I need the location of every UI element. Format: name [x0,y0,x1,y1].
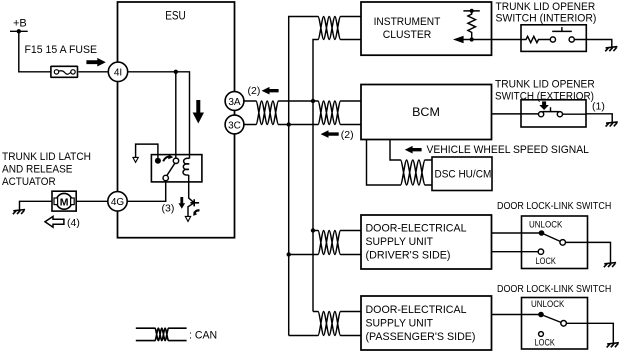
relay blade [167,163,175,175]
interior switch contact 2 [569,37,574,42]
arrow left (2) at 3A [262,87,279,95]
svg-text:TRUNK LID OPENER: TRUNK LID OPENER [496,1,596,13]
arrow left vehicle wheel speed [405,146,422,154]
door-electrical supply unit (driver) box [361,215,492,269]
exterior switch blade [543,107,559,111]
unlock contact (driver) [539,230,545,236]
svg-text:DOOR LOCK-LINK SWITCH: DOOR LOCK-LINK SWITCH [497,283,611,295]
switch blade (passenger) [541,315,561,323]
svg-text:4G: 4G [111,197,125,208]
ground (passenger switch) [607,343,619,348]
door lock-link switch (driver) box [522,216,588,269]
svg-text:AND RELEASE: AND RELEASE [2,164,73,176]
svg-text:3C: 3C [228,120,241,131]
svg-text:VEHICLE WHEEL SPEED SIGNAL: VEHICLE WHEEL SPEED SIGNAL [427,144,589,156]
ground (actuator) [13,210,25,215]
svg-text:SUPPLY UNIT: SUPPLY UNIT [366,236,434,248]
wire coil to driver symbol [188,175,194,217]
door lock-link switch (passenger) box [522,298,588,350]
wire passenger switch to ground [566,323,613,343]
interior switch button bar [552,27,572,31]
relay common contact [163,175,168,180]
wire twist to BCM [341,101,362,125]
svg-text:BCM: BCM [412,107,440,119]
wire interior switch line inside cluster [456,39,492,41]
twisted pair BCM to DSC [401,160,426,185]
CAN bus line L (right) [313,40,318,312]
trunk lid opener switch (interior) box [521,25,586,52]
svg-text:(DRIVER'S SIDE): (DRIVER'S SIDE) [366,250,451,262]
twisted pair to passenger door unit [318,312,341,336]
wire bus to driver door unit [289,231,361,255]
exterior switch contact 1 [539,112,544,117]
svg-text:: CAN: : CAN [189,330,217,342]
svg-text:DOOR LOCK-LINK SWITCH: DOOR LOCK-LINK SWITCH [497,200,611,212]
node 3C [225,115,244,134]
twisted pair to driver door unit [318,231,341,255]
svg-text:(2): (2) [248,85,261,97]
svg-text:(3): (3) [162,203,175,215]
arrow down (coil feed) [193,100,204,124]
wire bus to passenger door unit [289,312,361,336]
ground (interior switch) [605,47,617,52]
junction bus H / 3C wire [287,122,291,126]
unlock contact (passenger) [538,312,544,318]
legend CAN wires [136,328,187,340]
node 3A [225,92,244,111]
wire twist to DSC [425,160,432,185]
legend twisted pair [155,328,169,340]
resistor R (CAN terminator) in cluster [463,11,479,40]
node 4G [108,192,127,211]
svg-text:LOCK: LOCK [535,337,556,348]
svg-text:ESU: ESU [165,11,186,23]
wire motor to ground [20,201,53,210]
svg-text:M: M [60,196,69,208]
DSC HU/CM box [432,157,492,191]
twisted pair bus to BCM [318,101,341,125]
lock contact (passenger) [539,332,544,337]
ground (driver switch) [604,263,616,268]
wire driver unit to unlock contact [492,232,542,234]
wire bus top to instrument cluster [341,17,362,40]
svg-text:SWITCH (EXTERIOR): SWITCH (EXTERIOR) [495,90,594,102]
arrow down small at (3) [179,197,186,209]
CAN bus line H (left) [289,17,318,336]
wire 3A to bus [244,100,318,102]
wire driver unit to lock contact [492,251,539,253]
cross symbol on driver output [190,199,199,206]
trunk lid opener switch (exterior) box [521,100,586,127]
wire +B to fuse [19,31,51,72]
fuse F15 15 A [51,66,78,77]
svg-text:CLUSTER: CLUSTER [383,29,432,41]
door-electrical supply unit (passenger) box [361,296,492,350]
arrow press down (exterior switch) [539,101,549,110]
wire fuse to 4I [79,71,119,73]
blade pivot contact (passenger) [561,321,567,327]
svg-text:TRUNK LID OPENER: TRUNK LID OPENER [495,79,595,91]
wire cluster to interior switch [492,39,522,41]
svg-text:(1): (1) [592,101,605,113]
wire BCM to exterior switch [492,113,539,115]
curved bold arrow at driver [194,210,199,213]
svg-text:(4): (4) [67,217,80,229]
relay K1 box [151,155,202,182]
ESU box U1 [118,2,235,238]
relay actuate curved arrow [163,157,169,162]
motor M1 trunk latch actuator [52,191,76,211]
svg-text:SUPPLY UNIT: SUPPLY UNIT [366,318,434,330]
svg-text:TRUNK LID LATCH: TRUNK LID LATCH [2,151,91,163]
svg-text:F15 15 A FUSE: F15 15 A FUSE [25,44,98,56]
wire interior switch to ground [574,40,612,48]
svg-text:DSC HU/CM: DSC HU/CM [435,169,492,181]
wire exterior switch to ground [563,114,613,123]
hollow arrow left (4) [45,216,64,227]
power +B [10,18,28,34]
wire passenger unit to unlock contact [492,314,542,316]
instrument cluster box [361,2,492,55]
wire BCM to DSC twist [367,140,401,186]
wire motor to 4G [76,200,108,202]
svg-text:INSTRUMENT: INSTRUMENT [374,16,441,28]
wire 4I to relay branches [128,72,190,159]
wire driver switch to ground [566,242,611,263]
BCM box [361,85,492,140]
svg-text:UNLOCK: UNLOCK [531,299,565,310]
wire relay dot to hollow arrow [136,144,158,158]
junction bus H / driver wire [287,252,291,256]
svg-text:SWITCH (INTERIOR): SWITCH (INTERIOR) [496,13,597,25]
relay NO contact [173,158,178,163]
svg-text:DOOR-ELECTRICAL: DOOR-ELECTRICAL [366,222,467,234]
relay contact common dot [155,158,161,164]
twisted pair to instrument cluster [318,17,341,40]
svg-text:4I: 4I [114,68,122,79]
resistor in interior switch [521,36,550,42]
switch blade (driver) [542,233,561,241]
svg-text:+B: +B [13,18,27,30]
svg-text:(PASSENGER'S SIDE): (PASSENGER'S SIDE) [366,331,476,343]
wire common to 4G [127,181,166,202]
svg-text:3A: 3A [228,97,241,108]
svg-text:ACTUATOR: ACTUATOR [2,176,56,188]
junction bus L / 3A wire [311,99,315,103]
exterior switch contact 2 [557,112,562,117]
interior switch contact 1 [550,37,555,42]
ground (exterior switch) [606,122,618,127]
relay coil [183,158,189,175]
arrow left into cluster [453,36,464,43]
svg-text:(2): (2) [341,129,354,141]
svg-text:LOCK: LOCK [536,256,557,267]
arrow left (2) at BCM [321,130,339,138]
hollow arrow down (driver output) [185,216,190,221]
twisted pair at 3A/3C [256,101,279,125]
blade pivot contact (driver) [560,240,566,246]
junction bus L / driver wire [311,228,315,232]
junction dot [174,70,178,74]
wire 3C to bus [244,124,318,126]
lock contact (driver) [538,249,543,254]
arrow right into 4I [86,58,105,67]
node 4I [108,62,127,81]
svg-text:DOOR-ELECTRICAL: DOOR-ELECTRICAL [366,304,467,316]
junction resistor bottom [470,37,474,41]
junction resistor top [470,9,474,13]
svg-text:UNLOCK: UNLOCK [529,220,563,231]
hollow arrow down (to ground continuation) [133,157,138,162]
